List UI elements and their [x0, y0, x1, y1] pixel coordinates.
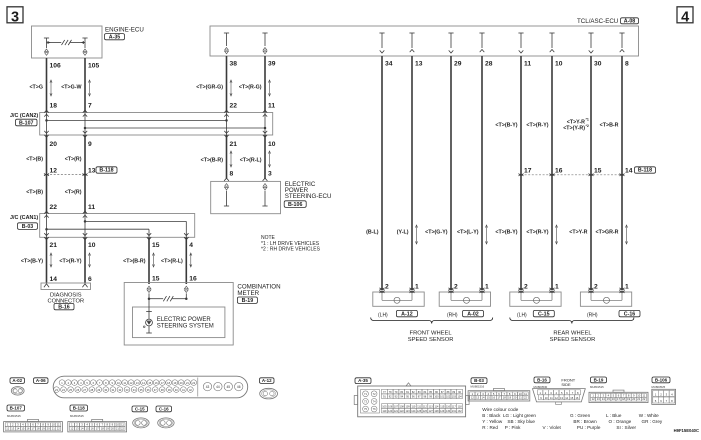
- svg-text:B-16: B-16: [58, 304, 70, 310]
- svg-text:17: 17: [32, 427, 35, 431]
- svg-text:B-19: B-19: [242, 298, 254, 304]
- svg-text:44: 44: [216, 385, 220, 389]
- svg-text:1: 1: [625, 284, 629, 291]
- connector face C-16: [158, 418, 174, 428]
- sensor crossing mark: [620, 288, 625, 290]
- inline connector dashed line B-118 right: [521, 174, 622, 176]
- svg-text:BR : Brown: BR : Brown: [573, 419, 597, 424]
- svg-text:C-16: C-16: [624, 311, 636, 317]
- combination meter box: [124, 283, 233, 346]
- sensor wire 5 vertical: [520, 56, 522, 290]
- svg-text:19: 19: [106, 427, 109, 431]
- svg-text:14: 14: [602, 397, 605, 401]
- sensor wire 6 vertical: [551, 56, 553, 290]
- wire 21-14: [46, 237, 48, 283]
- wire 106-18 (CAN-H upper): [46, 58, 48, 113]
- svg-text:A-12: A-12: [262, 378, 272, 383]
- svg-text:128: 128: [434, 410, 439, 413]
- svg-text:15: 15: [152, 242, 160, 249]
- svg-text:11: 11: [268, 103, 275, 110]
- svg-text:10: 10: [519, 392, 522, 396]
- svg-text:B-107: B-107: [10, 406, 23, 411]
- crossing mark: [589, 174, 594, 176]
- connector face B-19: [589, 392, 648, 402]
- svg-text:125: 125: [417, 410, 422, 413]
- sensor A-12 internal: [381, 292, 383, 300]
- CAN2 bus line lower: [85, 127, 265, 129]
- svg-text:16: 16: [91, 427, 94, 431]
- svg-text:103: 103: [452, 396, 457, 399]
- svg-text:2: 2: [385, 284, 389, 291]
- svg-text:1: 1: [415, 284, 419, 291]
- svg-text:10: 10: [268, 141, 276, 148]
- wire 10-3: [264, 135, 266, 179]
- svg-text:<T>(R-Y): <T>(R-Y): [526, 122, 548, 128]
- wire 4-16 meter: [185, 237, 187, 284]
- svg-text:21: 21: [116, 427, 119, 431]
- lamp wire: [148, 299, 150, 312]
- EPS stub 3: [263, 178, 268, 181]
- wheel speed sensor C-16 box: [580, 292, 631, 306]
- inline connector dashed line B-118: [47, 174, 86, 176]
- svg-text:15: 15: [487, 396, 490, 400]
- svg-text:15: 15: [152, 276, 160, 283]
- svg-text:SIDE: SIDE: [561, 382, 571, 387]
- svg-text:J/C (CAN1): J/C (CAN1): [10, 215, 38, 221]
- svg-text:V : Violet: V : Violet: [543, 425, 562, 430]
- svg-text:16: 16: [26, 427, 29, 431]
- svg-text:MU801516: MU801516: [471, 385, 485, 389]
- svg-text:<T>(R-G): <T>(R-G): [239, 84, 262, 90]
- diagnosis connector box: [41, 283, 91, 290]
- svg-text:115: 115: [440, 405, 445, 408]
- TCL stub pin 39: [262, 32, 267, 34]
- svg-text:12: 12: [555, 396, 558, 400]
- junction crossing mark top: [224, 110, 228, 112]
- connector tag B-106: [284, 201, 306, 208]
- junction crossing mark bottom: [83, 233, 87, 235]
- twisted pair mark: [486, 226, 488, 243]
- svg-text:22: 22: [524, 396, 527, 400]
- svg-text:22: 22: [57, 427, 60, 431]
- svg-text:46: 46: [237, 385, 241, 389]
- svg-text:102: 102: [446, 396, 451, 399]
- connector face A-35: [358, 386, 466, 417]
- connector face B-107: [4, 422, 63, 432]
- junction box J/C(CAN2): [40, 113, 273, 136]
- svg-text:2: 2: [524, 284, 528, 291]
- connector face B-106: [652, 389, 676, 404]
- connector face B-16: [533, 389, 586, 402]
- connector tag B-16 bottom: [534, 377, 550, 383]
- sensor crossing mark: [519, 288, 524, 290]
- svg-text:2: 2: [454, 284, 458, 291]
- junction crossing mark top: [263, 110, 267, 112]
- TCL stub sensor wire 6: [549, 32, 554, 34]
- svg-text:16: 16: [555, 168, 563, 175]
- sensor C-16 internal: [590, 292, 592, 300]
- svg-text:*2: *2: [586, 124, 589, 128]
- meter stub 15: [147, 286, 151, 289]
- EPS stub 8: [224, 178, 229, 181]
- svg-text:11: 11: [550, 396, 553, 400]
- wire through CAN1 left1: [46, 214, 48, 238]
- wheel speed sensor C-15 box: [510, 292, 561, 306]
- op-amp U0 ENGINE-ECU box: [32, 26, 103, 58]
- junction crossing mark bottom: [263, 131, 267, 133]
- svg-text:10: 10: [637, 393, 640, 397]
- svg-text:12: 12: [592, 397, 595, 401]
- sensor wire 7 vertical: [590, 56, 592, 290]
- svg-text:<T>(R): <T>(R): [65, 156, 82, 162]
- page number 4 box: [677, 7, 693, 23]
- svg-text:18: 18: [503, 396, 506, 400]
- wire 10-6: [84, 237, 86, 283]
- svg-text:113: 113: [429, 405, 434, 408]
- svg-text:B-118: B-118: [73, 406, 86, 411]
- sensor A-02 internal: [450, 292, 452, 300]
- sensor wire 2 vertical: [411, 56, 413, 290]
- svg-text:28: 28: [485, 61, 493, 68]
- svg-text:ENGINE-ECU: ENGINE-ECU: [105, 27, 144, 34]
- junction crossing mark bottom: [184, 233, 188, 235]
- svg-text:G : Green: G : Green: [570, 413, 591, 418]
- TCL stub sensor wire 5: [518, 32, 523, 34]
- twisted pair mark: [230, 152, 232, 166]
- connector tag B-118 right: [635, 167, 656, 173]
- svg-text:13: 13: [88, 168, 96, 175]
- crossing mark: [620, 174, 625, 176]
- svg-text:A-08: A-08: [624, 18, 636, 24]
- svg-text:B-118: B-118: [99, 168, 113, 174]
- wire through CAN2 right2: [264, 113, 266, 136]
- svg-text:SPEED SENSOR: SPEED SENSOR: [408, 337, 454, 343]
- svg-text:21: 21: [52, 427, 55, 431]
- svg-text:13: 13: [597, 397, 600, 401]
- connector tag B-118 left: [96, 167, 117, 173]
- sensor wire 4 vertical: [481, 56, 483, 290]
- svg-text:(B-L): (B-L): [366, 229, 379, 235]
- svg-text:22: 22: [121, 427, 124, 431]
- svg-text:105: 105: [382, 405, 387, 408]
- connector tag C-16 bottom: [156, 406, 172, 412]
- svg-text:B-106: B-106: [655, 377, 668, 382]
- svg-text:A-02: A-02: [467, 311, 479, 317]
- svg-text:(RH): (RH): [447, 312, 458, 318]
- svg-text:20: 20: [50, 141, 58, 148]
- svg-text:14: 14: [50, 276, 58, 283]
- connector face B-118: [68, 422, 127, 432]
- svg-text:13: 13: [11, 427, 14, 431]
- twisted pair mark: [190, 254, 192, 266]
- svg-text:MU803525: MU803525: [652, 385, 666, 389]
- svg-text:107: 107: [394, 405, 399, 408]
- crossing mark: [550, 174, 555, 176]
- svg-text:B-03: B-03: [474, 378, 484, 383]
- svg-text:C-16: C-16: [159, 406, 169, 411]
- svg-text:<T>(B-Y): <T>(B-Y): [21, 258, 43, 264]
- svg-text:132: 132: [458, 410, 463, 413]
- svg-text:MU801515: MU801515: [590, 385, 604, 389]
- svg-text:110: 110: [411, 405, 416, 408]
- connector face C-15: [133, 418, 149, 428]
- svg-text:8: 8: [625, 61, 629, 68]
- svg-text:127: 127: [429, 410, 434, 413]
- junction box J/C(CAN1): [40, 214, 195, 238]
- junction crossing mark top: [83, 110, 87, 112]
- svg-text:8: 8: [230, 171, 234, 178]
- wheel speed sensor A-12 box: [373, 292, 424, 306]
- svg-text:13: 13: [476, 396, 479, 400]
- connector tag C-15 bottom: [132, 406, 148, 412]
- svg-text:104: 104: [458, 396, 463, 399]
- junction crossing mark top: [44, 110, 48, 112]
- sensor crossing mark: [380, 288, 385, 290]
- svg-text:SPEED SENSOR: SPEED SENSOR: [550, 337, 596, 343]
- svg-text:116: 116: [446, 405, 451, 408]
- svg-text:<T>Y-R: <T>Y-R: [569, 229, 587, 235]
- svg-text:1: 1: [485, 284, 489, 291]
- sensor wire 3 vertical: [450, 56, 452, 290]
- svg-text:C-15: C-15: [538, 311, 550, 317]
- svg-text:17: 17: [497, 396, 500, 400]
- TCL stub sensor wire 2: [409, 32, 414, 34]
- junction crossing mark bottom: [44, 131, 48, 133]
- svg-text:B-16: B-16: [537, 377, 547, 382]
- svg-text:*2 : RH DRIVE VEHICLES: *2 : RH DRIVE VEHICLES: [261, 246, 321, 252]
- wire 38-22: [226, 56, 228, 113]
- twisted pair mark: [50, 254, 52, 266]
- TCL stub sensor wire 7: [588, 32, 593, 34]
- svg-text:O : Orange: O : Orange: [609, 419, 632, 424]
- svg-text:21: 21: [637, 397, 640, 401]
- svg-text:*1: *1: [586, 118, 589, 122]
- connector tag C-16: [619, 310, 640, 316]
- svg-text:<T>Y-R: <T>Y-R: [567, 119, 585, 125]
- TCL stub sensor wire 4: [479, 32, 484, 34]
- CAN2 bus line upper: [47, 119, 227, 121]
- svg-text:A-35: A-35: [109, 34, 121, 40]
- svg-text:10: 10: [545, 396, 548, 400]
- svg-text:11: 11: [524, 61, 531, 68]
- front sensors brace: [371, 318, 493, 324]
- wire 21-8: [226, 135, 228, 179]
- svg-text:7: 7: [88, 103, 92, 110]
- ENGINE-ECU pin stub 106: [44, 37, 49, 39]
- svg-text:LG : Light green: LG : Light green: [503, 413, 536, 418]
- page number 3 box: [7, 7, 23, 23]
- svg-text:15: 15: [570, 396, 573, 400]
- svg-text:ELECTRIC POWER: ELECTRIC POWER: [157, 317, 212, 323]
- sensor wire 8 vertical: [621, 56, 623, 290]
- svg-text:108: 108: [400, 405, 405, 408]
- svg-text:15: 15: [86, 427, 89, 431]
- connector tag B-16: [54, 303, 74, 309]
- svg-text:119: 119: [382, 410, 387, 413]
- svg-text:13: 13: [415, 61, 423, 68]
- wire 15 meter: [148, 237, 150, 284]
- sensor crossing mark: [410, 288, 415, 290]
- junction crossing mark top: [83, 211, 87, 213]
- svg-text:21: 21: [519, 396, 522, 400]
- svg-text:16: 16: [575, 396, 578, 400]
- svg-text:MU801515: MU801515: [70, 414, 84, 418]
- svg-text:14: 14: [482, 396, 485, 400]
- svg-text:114: 114: [434, 405, 439, 408]
- connector face A-12: [260, 388, 278, 399]
- connector tag A-35: [105, 34, 125, 40]
- svg-text:J/C (CAN2): J/C (CAN2): [10, 113, 38, 119]
- svg-text:B-19: B-19: [594, 377, 604, 382]
- svg-text:15: 15: [607, 397, 610, 401]
- connector tag B-03 bottom: [471, 378, 487, 384]
- connector tag A-08: [621, 18, 639, 24]
- svg-text:A-35: A-35: [358, 378, 368, 383]
- junction crossing mark bottom: [44, 233, 48, 235]
- svg-text:<T>(R-Y): <T>(R-Y): [526, 229, 548, 235]
- svg-text:129: 129: [440, 410, 445, 413]
- svg-text:PU : Purple: PU : Purple: [577, 425, 601, 430]
- svg-text:20: 20: [111, 427, 114, 431]
- svg-text:123: 123: [405, 410, 410, 413]
- svg-text:43: 43: [206, 385, 210, 389]
- svg-text:REAR WHEEL: REAR WHEEL: [553, 331, 592, 337]
- ENGINE-ECU pin stub 105: [82, 37, 87, 39]
- CAN1 bus line lower: [47, 228, 150, 230]
- svg-text:20: 20: [632, 397, 635, 401]
- crossing mark: [519, 174, 524, 176]
- svg-text:<T>(R-Y): <T>(R-Y): [59, 258, 81, 264]
- svg-text:Y : Yellow: Y : Yellow: [482, 419, 503, 424]
- twisted pair mark: [416, 226, 418, 243]
- svg-text:L : Blue: L : Blue: [606, 413, 622, 418]
- svg-text:C-15: C-15: [135, 406, 145, 411]
- resistor inside ENGINE-ECU: [47, 42, 62, 44]
- svg-text:131: 131: [452, 410, 457, 413]
- svg-text:(Y-L): (Y-L): [397, 229, 409, 235]
- svg-text:17: 17: [96, 427, 99, 431]
- svg-text:<T>(G-Y): <T>(G-Y): [425, 229, 448, 235]
- svg-text:16: 16: [492, 396, 495, 400]
- twisted pair mark: [230, 81, 232, 95]
- svg-text:<T>(B-Y): <T>(B-Y): [495, 229, 517, 235]
- svg-text:11: 11: [524, 392, 527, 396]
- connector tag B-19: [237, 297, 257, 303]
- svg-text:A-06: A-06: [36, 378, 46, 383]
- svg-text:4: 4: [189, 242, 193, 249]
- connector tag B-118 bottom: [70, 405, 88, 411]
- svg-text:111: 111: [417, 405, 421, 408]
- svg-text:<T>B-R: <T>B-R: [600, 122, 619, 128]
- rear sensors brace: [510, 318, 634, 324]
- svg-text:15: 15: [21, 427, 24, 431]
- svg-text:122: 122: [400, 410, 405, 413]
- svg-text:17: 17: [524, 168, 532, 175]
- sensor C-15 internal: [520, 292, 522, 300]
- connector tag C-15: [533, 310, 554, 316]
- svg-text:<T>(GR-G): <T>(GR-G): [196, 84, 223, 90]
- connector tag B-107 bottom: [7, 405, 25, 411]
- connector tag B-107: [16, 119, 38, 126]
- crossing mark: [83, 174, 88, 176]
- junction crossing mark bottom: [147, 233, 151, 235]
- svg-text:18: 18: [50, 103, 58, 110]
- connector tag B-19 bottom: [591, 377, 607, 383]
- wire through CAN2 left1: [46, 113, 48, 136]
- svg-text:B-03: B-03: [22, 224, 34, 230]
- sensor crossing mark: [449, 288, 454, 290]
- twisted pair mark: [269, 81, 271, 95]
- svg-text:B-107: B-107: [19, 120, 33, 126]
- svg-text:2: 2: [594, 284, 598, 291]
- svg-text:<T>(B-R): <T>(B-R): [123, 258, 146, 264]
- twisted pair mark: [269, 152, 271, 166]
- connector tag A-35 bottom: [355, 378, 371, 384]
- op-amp U1 TCL/ASC-ECU box: [210, 26, 639, 56]
- svg-text:12: 12: [50, 168, 58, 175]
- svg-text:105: 105: [88, 63, 99, 70]
- svg-text:6: 6: [88, 276, 92, 283]
- svg-text:W : White: W : White: [639, 413, 659, 418]
- svg-text:14: 14: [565, 396, 568, 400]
- wire through CAN1 left2: [84, 214, 86, 238]
- svg-text:106: 106: [50, 63, 61, 70]
- svg-text:15: 15: [594, 168, 602, 175]
- svg-text:STEERING-ECU: STEERING-ECU: [285, 193, 332, 200]
- svg-text:<T>(R-L): <T>(R-L): [240, 157, 262, 163]
- wire 20-12: [46, 135, 48, 214]
- svg-text:38: 38: [230, 61, 238, 68]
- svg-text:39: 39: [268, 61, 276, 68]
- svg-text:TCL/ASC-ECU: TCL/ASC-ECU: [577, 18, 618, 25]
- svg-text:A-02: A-02: [12, 378, 22, 383]
- TCL stub sensor wire 8: [619, 32, 624, 34]
- svg-text:9: 9: [88, 141, 92, 148]
- TCL stub pin 38: [224, 32, 229, 34]
- svg-text:H9F15E040C: H9F15E040C: [674, 428, 699, 433]
- svg-text:10: 10: [52, 423, 55, 427]
- svg-text:18: 18: [101, 427, 104, 431]
- svg-text:<T>(Y-R): <T>(Y-R): [563, 126, 585, 132]
- svg-text:124: 124: [411, 410, 416, 413]
- connector tag A-06 bottom: [34, 378, 49, 384]
- connector tag A-02: [463, 310, 484, 316]
- twisted pair mark: [626, 226, 628, 243]
- svg-text:<T>(B): <T>(B): [26, 189, 43, 195]
- wire through CAN2 left2: [84, 113, 86, 136]
- connector face B-03: [468, 391, 530, 401]
- EPS warning lamp: [146, 319, 153, 326]
- wire through CAN2 right1: [226, 113, 228, 136]
- svg-text:STEERING SYSTEM: STEERING SYSTEM: [157, 324, 214, 330]
- twisted pair mark: [89, 254, 91, 266]
- twisted pair mark: [153, 254, 155, 266]
- svg-text:(LH): (LH): [517, 312, 527, 318]
- svg-text:12: 12: [471, 396, 474, 400]
- svg-text:12: 12: [6, 427, 9, 431]
- svg-text:14: 14: [16, 427, 19, 431]
- svg-text:20: 20: [513, 396, 516, 400]
- connector tag B-106 bottom: [652, 377, 670, 383]
- wheel speed sensor A-02 box: [439, 292, 490, 306]
- svg-text:SB : Sky blue: SB : Sky blue: [507, 419, 535, 424]
- crossing mark: [44, 174, 49, 176]
- connector tag A-12: [396, 310, 417, 316]
- svg-text:112: 112: [423, 405, 428, 408]
- svg-text:30: 30: [594, 61, 602, 68]
- svg-text:B-118: B-118: [638, 168, 652, 174]
- wire 39-11: [264, 56, 266, 113]
